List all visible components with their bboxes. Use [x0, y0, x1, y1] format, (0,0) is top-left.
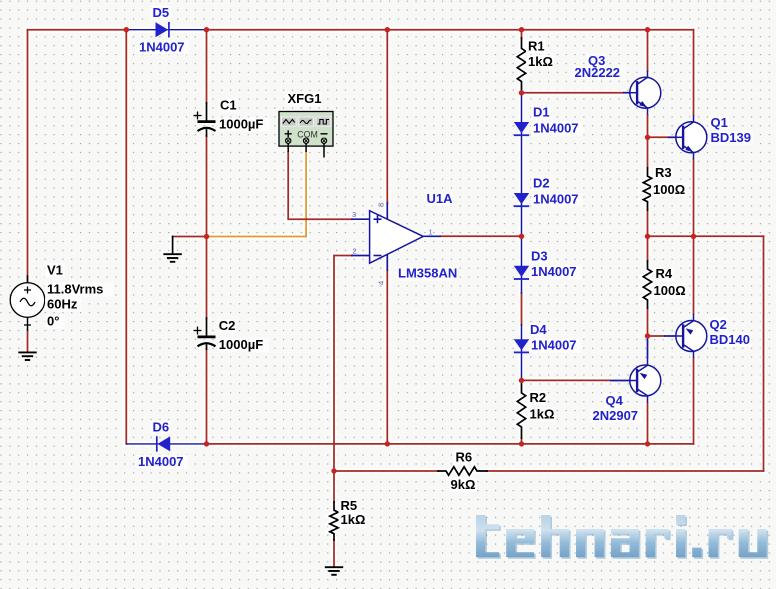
svg-text:2N2907: 2N2907: [593, 408, 639, 423]
svg-text:V1: V1: [47, 263, 63, 278]
svg-text:3: 3: [352, 210, 356, 219]
svg-text:1kΩ: 1kΩ: [341, 512, 366, 527]
svg-text:60Hz: 60Hz: [47, 297, 78, 312]
svg-text:D4: D4: [530, 322, 547, 337]
svg-text:R2: R2: [530, 390, 547, 405]
svg-text:D1: D1: [533, 105, 550, 120]
svg-text:1: 1: [429, 227, 433, 236]
svg-text:R1: R1: [528, 39, 545, 54]
svg-text:U1A: U1A: [427, 191, 454, 206]
svg-text:1N4007: 1N4007: [531, 264, 577, 279]
svg-text:2: 2: [353, 246, 357, 255]
svg-text:1N4007: 1N4007: [533, 120, 579, 135]
svg-text:C2: C2: [219, 318, 236, 333]
svg-text:R6: R6: [456, 449, 473, 464]
svg-text:D6: D6: [153, 420, 170, 435]
svg-text:2N2222: 2N2222: [575, 65, 621, 80]
svg-text:XFG1: XFG1: [288, 91, 322, 106]
svg-text:4: 4: [377, 281, 386, 285]
svg-text:1N4007: 1N4007: [139, 39, 185, 54]
svg-text:BD139: BD139: [711, 130, 751, 145]
svg-text:D3: D3: [531, 248, 548, 263]
svg-text:1000µF: 1000µF: [219, 117, 263, 132]
svg-text:R3: R3: [655, 165, 672, 180]
svg-text:Q2: Q2: [710, 317, 727, 332]
svg-text:Q1: Q1: [711, 115, 728, 130]
svg-text:D5: D5: [153, 5, 170, 20]
svg-text:1N4007: 1N4007: [533, 191, 579, 206]
svg-text:100Ω: 100Ω: [654, 283, 686, 298]
svg-text:100Ω: 100Ω: [653, 182, 685, 197]
svg-text:1kΩ: 1kΩ: [528, 54, 553, 69]
svg-text:D2: D2: [533, 176, 550, 191]
svg-text:R4: R4: [656, 266, 673, 281]
svg-text:BD140: BD140: [710, 332, 750, 347]
svg-text:9kΩ: 9kΩ: [451, 477, 476, 492]
svg-text:1000µF: 1000µF: [219, 337, 263, 352]
svg-text:1N4007: 1N4007: [531, 338, 577, 353]
svg-text:LM358AN: LM358AN: [398, 266, 457, 281]
svg-text:1N4007: 1N4007: [138, 454, 184, 469]
svg-text:11.8Vrms: 11.8Vrms: [47, 282, 103, 297]
svg-text:8: 8: [377, 203, 386, 207]
svg-text:R5: R5: [341, 498, 358, 513]
svg-text:1kΩ: 1kΩ: [530, 407, 555, 422]
svg-text:0°: 0°: [47, 314, 59, 329]
svg-text:Q4: Q4: [606, 393, 624, 408]
svg-text:C1: C1: [220, 98, 237, 113]
